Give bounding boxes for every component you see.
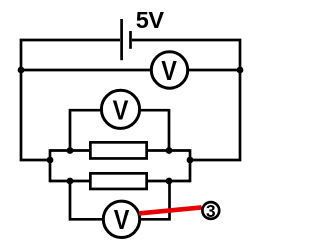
wire: left parallel bus vertical [49, 149, 52, 182]
node junction dot V3 right tap [166, 178, 173, 185]
label circle 3 [202, 202, 219, 219]
svg-text:5V: 5V [136, 7, 165, 33]
svg-text:3: 3 [206, 201, 216, 221]
node junction dot V2 right tap [166, 147, 173, 154]
node junction dot left V1 row [18, 67, 25, 74]
wire: voltmeter V2 left tap [70, 110, 121, 150]
wire: top branch through resistor R1 [50, 149, 190, 152]
wire: right run from battery plus around right side down to right feed node [132, 40, 240, 160]
node junction dot right feed [187, 157, 194, 164]
battery B1 long plate [120, 19, 123, 60]
voltmeter V2 circle [101, 90, 139, 128]
wire: left run from battery minus around left side down to left feed node [21, 40, 120, 160]
node junction dot left feed [47, 157, 54, 164]
resistor R2 [90, 173, 146, 189]
wire: right parallel bus vertical [189, 149, 192, 182]
svg-text:V: V [114, 204, 130, 235]
red callout line to label 3 [139, 207, 202, 213]
node junction dot V2 left tap [67, 147, 74, 154]
svg-text:V: V [161, 55, 177, 86]
svg-text:V: V [113, 93, 129, 125]
node junction dot V3 left tap [67, 178, 74, 185]
battery B1 short plate [129, 31, 132, 49]
resistor R1 [90, 142, 146, 158]
wire: voltmeter V3 left tap [70, 181, 121, 219]
wire: voltmeter V3 right tap [121, 181, 170, 219]
wire: bottom branch through resistor R2 [50, 180, 190, 183]
voltmeter V1 circle [151, 52, 187, 88]
wire: voltmeter V2 right tap [121, 110, 169, 150]
wire: voltmeter V1 row across at y=70 [21, 69, 240, 72]
voltmeter V3 circle [103, 201, 139, 237]
node junction dot right V1 row [237, 67, 244, 74]
